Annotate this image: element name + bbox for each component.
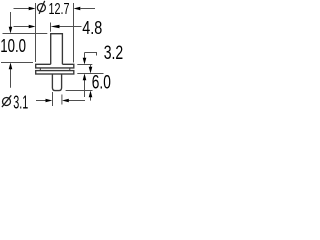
svg-text:12.7: 12.7 [49,1,70,18]
svg-text:3.2: 3.2 [104,43,124,64]
svg-text:4.8: 4.8 [82,18,102,38]
svg-text:6.0: 6.0 [92,72,111,93]
svg-text:3.1: 3.1 [13,93,28,113]
svg-text:10.0: 10.0 [0,36,26,56]
